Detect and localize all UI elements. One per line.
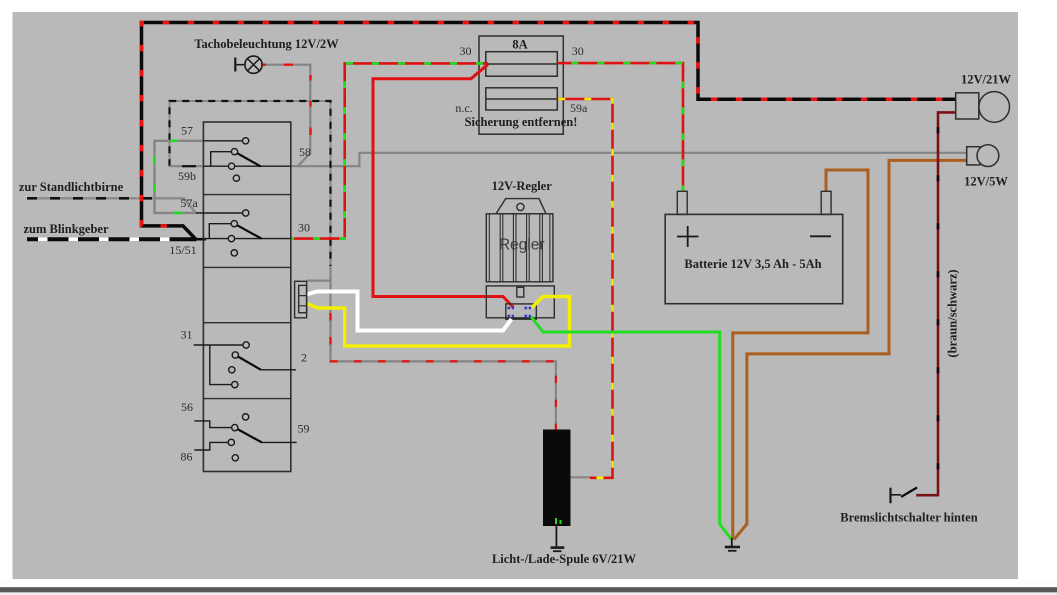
wire: fuse output to battery plus (red with green dashes)	[557, 63, 683, 191]
svg-text:12V-Regler: 12V-Regler	[492, 179, 553, 193]
svg-text:30: 30	[298, 221, 310, 235]
regulator connector blue pins	[508, 308, 532, 316]
wire: yellow (regulator to connector)	[307, 297, 570, 347]
svg-text:n.c.: n.c.	[455, 101, 472, 115]
svg-text:31: 31	[181, 328, 193, 342]
battery	[665, 191, 843, 303]
svg-text:57: 57	[181, 124, 193, 138]
wire: 58 to 12V/5W lamp (gray)	[291, 153, 967, 166]
ground symbol (coil)	[551, 526, 565, 551]
svg-text:30: 30	[460, 44, 472, 58]
svg-text:15/51: 15/51	[169, 243, 196, 257]
svg-text:12V/21W: 12V/21W	[961, 73, 1012, 87]
switch section 4 internals (31 / 2)	[194, 342, 296, 388]
brake light switch	[891, 488, 918, 504]
svg-text:86: 86	[181, 450, 193, 464]
svg-text:zur Standlichtbirne: zur Standlichtbirne	[19, 180, 124, 194]
wire: battery plus feed, main loom (black with red dashes)	[142, 23, 956, 241]
12V/21W lamp	[956, 92, 1010, 123]
12V/5W lamp	[967, 145, 999, 167]
wire: 59b (gray with one black dash)	[170, 165, 204, 167]
ground symbol (main, below battery)	[725, 538, 740, 551]
fuse element 2 (n.c. / 59a)	[486, 88, 558, 110]
dashed enclosure box (gray with black dashes)	[170, 101, 331, 266]
svg-text:zum Blinkgeber: zum Blinkgeber	[23, 222, 109, 236]
switch box	[203, 122, 290, 472]
wire: Tacho lamp to terminal 58 (gray with red dashes)	[263, 65, 311, 167]
svg-text:Bremslichtschalter hinten: Bremslichtschalter hinten	[840, 511, 977, 525]
svg-text:Regler: Regler	[499, 237, 545, 254]
wire: connector feed and terminal-2 to coil (gray with red dashes)	[307, 166, 556, 429]
svg-text:Licht-/Lade-Spule 6V/21W: Licht-/Lade-Spule 6V/21W	[492, 552, 637, 566]
wire: red B+ feed to regulator (solid red)	[373, 64, 514, 307]
wire: braun/schwarz to brake light switch (dark red with black dashes)	[916, 112, 956, 495]
svg-text:59b: 59b	[178, 169, 196, 183]
switch section 2 internals (57a / 15-51 / 30)	[196, 210, 291, 256]
charging coil Licht-/Lade-Spule	[543, 430, 571, 527]
svg-text:2: 2	[301, 351, 307, 365]
svg-text:58: 58	[299, 145, 311, 159]
regulator 12V-Regler	[486, 199, 554, 320]
wire: brown 12V/5W lamp to ground	[734, 160, 967, 539]
fuse element 1 (8A)	[486, 52, 558, 76]
fuse box outline	[479, 36, 563, 134]
svg-text:57a: 57a	[180, 196, 198, 210]
svg-text:30: 30	[572, 44, 584, 58]
switch section 5 internals (56 / 86 / 59)	[194, 414, 296, 461]
svg-text:56: 56	[181, 400, 193, 414]
svg-text:12V/5W: 12V/5W	[964, 175, 1008, 189]
svg-text:Batterie 12V 3,5 Ah - 5Ah: Batterie 12V 3,5 Ah - 5Ah	[684, 257, 821, 271]
wire: green (regulator to ground)	[531, 317, 732, 540]
wire: white (regulator to connector)	[307, 292, 512, 331]
wire: brown battery minus to ground	[733, 170, 868, 540]
svg-text:Sicherung entfernen!: Sicherung entfernen!	[465, 115, 578, 129]
svg-text:59: 59	[298, 422, 310, 436]
svg-text:Tachobeleuchtung 12V/2W: Tachobeleuchtung 12V/2W	[194, 37, 339, 51]
wire: zum Blinkgeber (black with white dashes)	[27, 237, 206, 241]
svg-text:59a: 59a	[570, 101, 588, 115]
wire: fuse 59a to charging coil (red with yellow dashes)	[557, 99, 612, 478]
wire: zur Standlichtbirne (gray with black dashes) + 57a diagonal	[27, 198, 196, 213]
Tacho lamp symbol	[235, 56, 262, 73]
connector block on switch	[295, 281, 307, 318]
switch section 1 internals (57 / 59b / 58)	[203, 138, 290, 182]
svg-text:(braun/schwarz): (braun/schwarz)	[946, 269, 960, 357]
wire: 57 chain (gray with green dashes)	[155, 141, 204, 213]
wire: fuse input from terminal 30 (red with green dashes)	[292, 63, 488, 238]
svg-text:8A: 8A	[512, 38, 527, 52]
wire: gray stub into coil right side	[571, 476, 591, 478]
